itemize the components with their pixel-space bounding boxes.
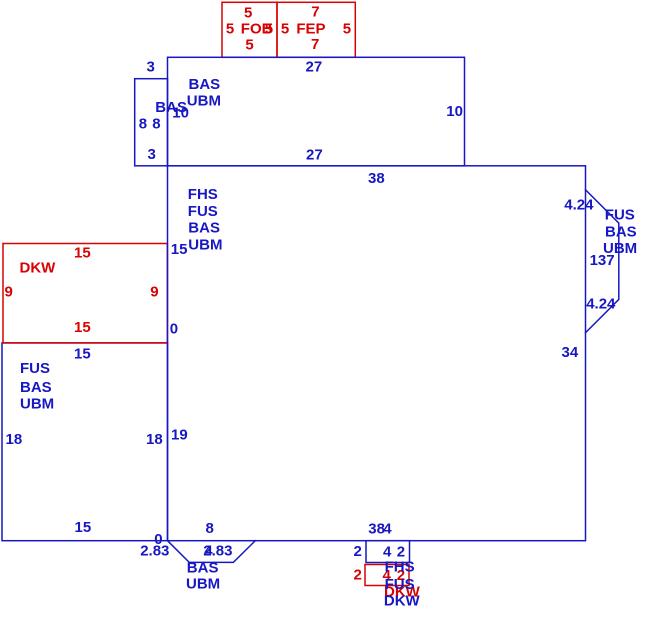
svg-text:19: 19 <box>171 426 188 443</box>
svg-text:8: 8 <box>152 116 160 133</box>
svg-text:18: 18 <box>6 431 23 448</box>
svg-text:FUS: FUS <box>385 576 415 593</box>
svg-text:4.24: 4.24 <box>586 295 616 312</box>
svg-text:UBM: UBM <box>603 240 637 257</box>
svg-text:15: 15 <box>74 319 91 336</box>
svg-text:5: 5 <box>281 20 289 37</box>
svg-text:BAS: BAS <box>20 379 52 396</box>
svg-text:2.83: 2.83 <box>140 542 169 559</box>
svg-text:FUS: FUS <box>605 207 635 224</box>
red rect FEP (top) <box>277 2 355 57</box>
svg-text:5: 5 <box>245 36 253 53</box>
svg-text:BAS: BAS <box>189 76 221 93</box>
svg-text:2: 2 <box>354 566 362 583</box>
svg-text:FHS: FHS <box>385 559 415 576</box>
svg-text:UBM: UBM <box>186 576 220 593</box>
svg-text:9: 9 <box>5 284 13 301</box>
svg-text:5: 5 <box>343 20 351 37</box>
blue main rectangle (38x34) <box>168 166 586 541</box>
svg-text:15: 15 <box>74 345 91 362</box>
svg-text:5: 5 <box>265 20 273 37</box>
svg-text:10: 10 <box>446 103 463 120</box>
svg-text:8: 8 <box>206 520 214 537</box>
svg-text:FUS: FUS <box>188 203 218 220</box>
svg-text:4.24: 4.24 <box>564 197 594 214</box>
svg-text:15: 15 <box>171 241 188 258</box>
bottom trapezoid bay (2.83 / 4 / 2.83) <box>168 541 256 563</box>
svg-text:10: 10 <box>172 104 189 121</box>
svg-text:3: 3 <box>147 59 155 76</box>
red rect DKW (left middle) <box>3 244 167 343</box>
svg-text:15: 15 <box>75 519 92 536</box>
svg-text:DKW: DKW <box>20 259 57 276</box>
svg-text:9: 9 <box>150 284 158 301</box>
svg-text:BAS: BAS <box>187 559 219 576</box>
svg-text:18: 18 <box>146 431 163 448</box>
svg-text:8: 8 <box>139 116 147 133</box>
svg-text:0: 0 <box>170 321 178 338</box>
svg-text:FHS: FHS <box>188 186 218 203</box>
svg-text:2: 2 <box>354 543 362 560</box>
svg-text:DKW: DKW <box>384 593 421 610</box>
right bay window outline (4.24 / 7 / 4.24) <box>586 190 619 333</box>
blue small rectangle left-top (BAS, 3x8) <box>135 79 168 166</box>
svg-text:UBM: UBM <box>188 237 222 254</box>
svg-text:FUS: FUS <box>20 360 50 377</box>
svg-text:BAS: BAS <box>188 220 220 237</box>
svg-text:27: 27 <box>306 147 323 164</box>
svg-text:FEP: FEP <box>296 20 325 37</box>
red rect bottom (small, near FHS/DKW labels) <box>365 565 409 586</box>
svg-text:UBM: UBM <box>187 93 221 110</box>
svg-text:5: 5 <box>244 4 252 21</box>
left-bottom blue rectangle FUS/BAS/UBM <box>2 343 168 541</box>
svg-text:7: 7 <box>311 4 319 21</box>
svg-text:5: 5 <box>226 20 234 37</box>
svg-text:34: 34 <box>562 344 579 361</box>
svg-text:7: 7 <box>311 36 319 53</box>
red rect FOB (top) <box>222 2 277 57</box>
svg-text:4: 4 <box>383 520 392 537</box>
svg-text:27: 27 <box>306 58 323 75</box>
blue top rectangle BAS/UBM <box>168 57 465 166</box>
bottom small blue rectangle (4x2, FHS) <box>366 541 410 563</box>
svg-text:BAS: BAS <box>605 224 637 241</box>
svg-text:UBM: UBM <box>20 395 54 412</box>
svg-text:2.83: 2.83 <box>203 542 232 559</box>
svg-text:38: 38 <box>368 170 385 187</box>
svg-text:3: 3 <box>148 146 156 163</box>
svg-text:15: 15 <box>74 244 91 261</box>
